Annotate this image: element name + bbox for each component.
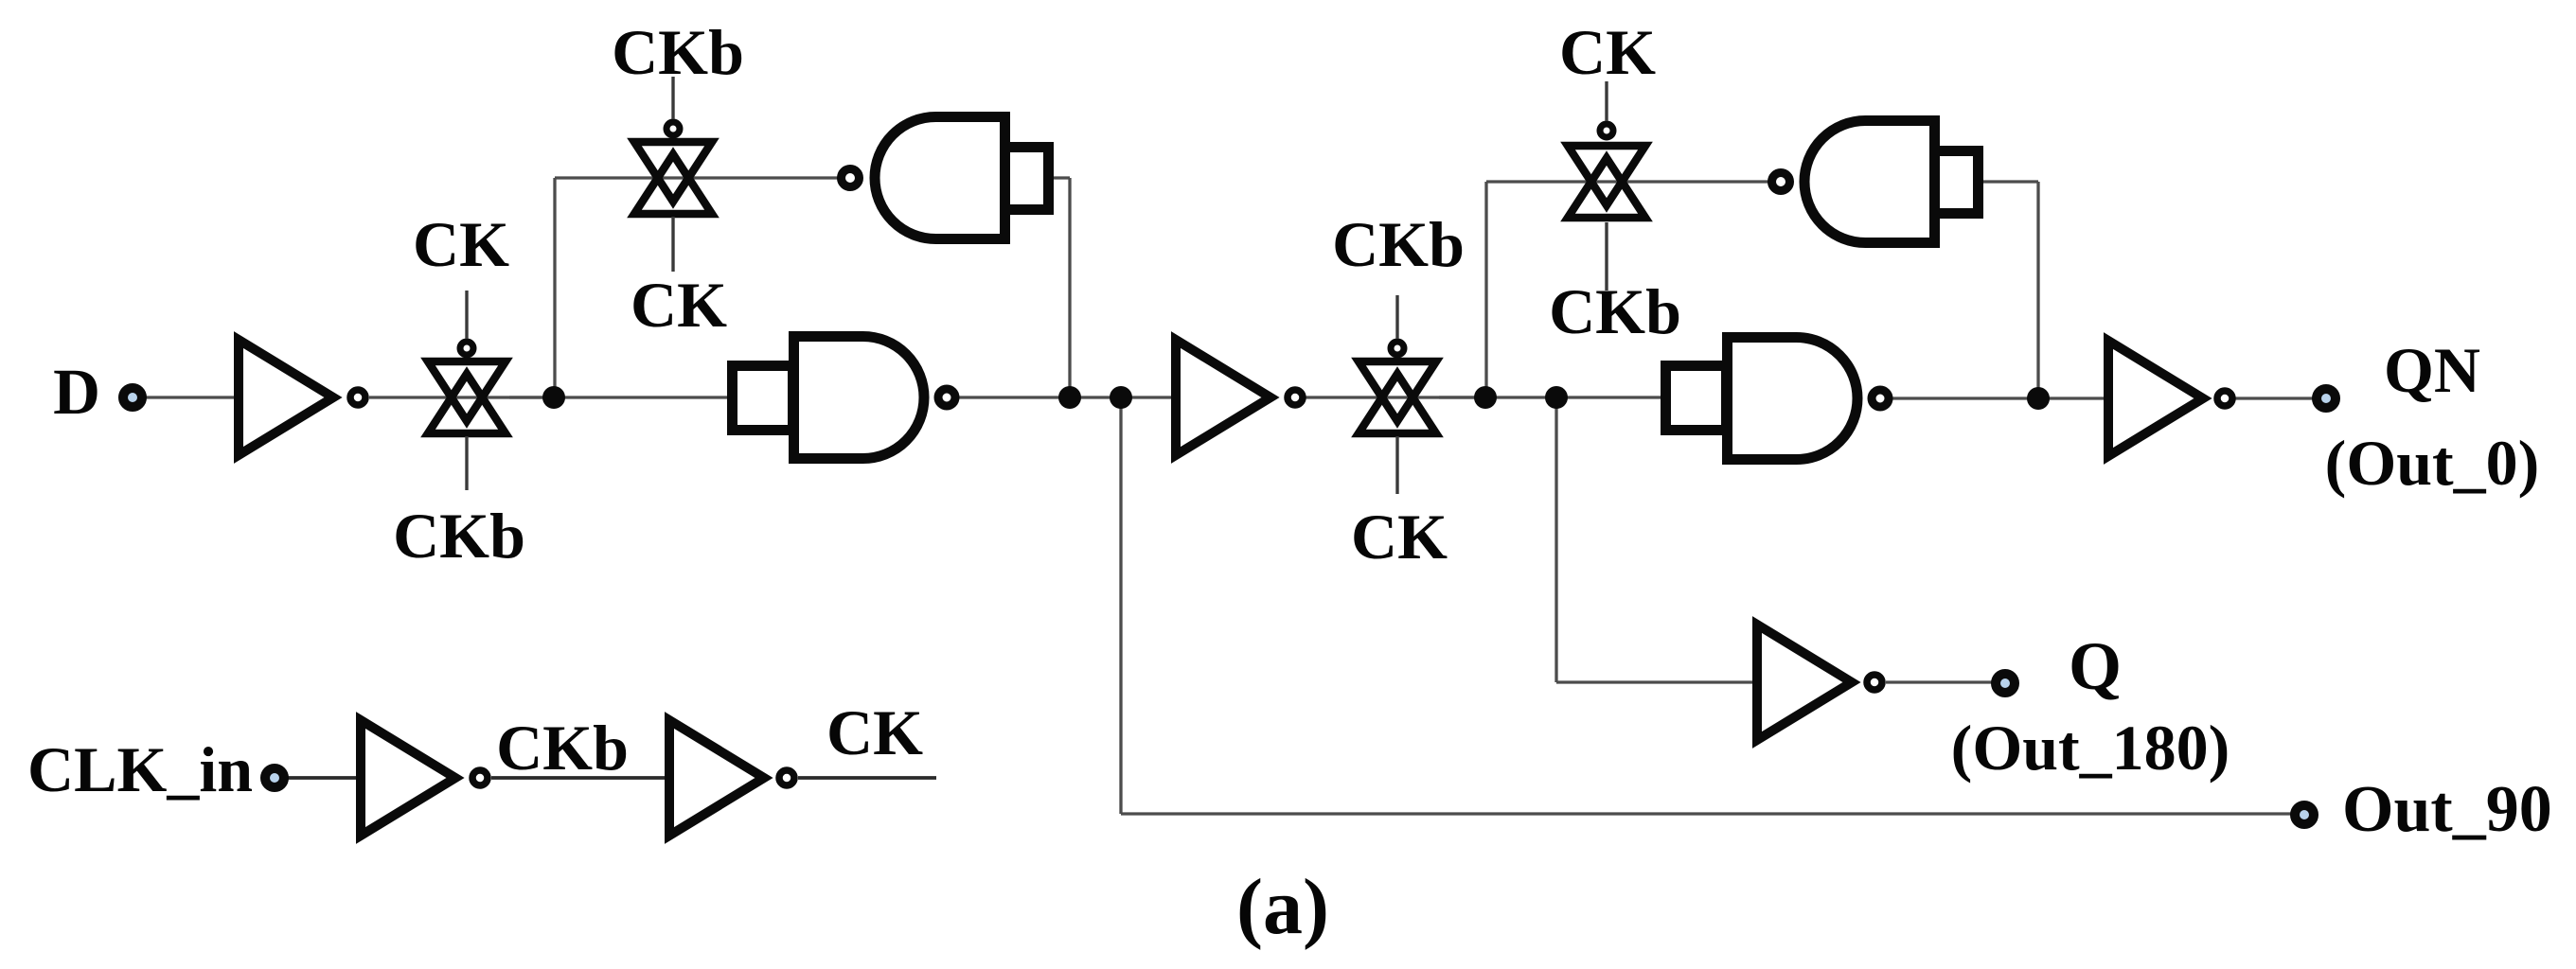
svg-text:CK: CK (1351, 501, 1448, 573)
svg-text:QN: QN (2384, 334, 2480, 406)
svg-text:CK: CK (826, 696, 923, 768)
wire NAND1 output to inverter2 (957, 396, 1176, 398)
wire corner down to node N3 (2036, 182, 2039, 398)
wire D input to inverter (133, 396, 239, 398)
upper NAND2 (latch 2 feedback gate, mirrored) (1772, 121, 1979, 243)
wire node N2 down to Out_90 row (1119, 397, 1122, 814)
inverter U4 (Q output buffer) (1757, 625, 1882, 740)
transmission gate TG4 (feedback, latch 2) (1568, 124, 1645, 218)
wire upper NAND1 tab to corner (1052, 176, 1070, 179)
lower NAND1 (latch 1 forward gate) (733, 337, 956, 459)
svg-text:(Out_180): (Out_180) (1951, 712, 2230, 784)
control stub CK of TG4 (1605, 81, 1608, 121)
node N1 junction (1058, 386, 1081, 409)
wire CKb net between clock inverters (491, 776, 669, 780)
node N2 junction (Out_90 tap) (1110, 386, 1132, 409)
wire Out_90 row to terminal (1121, 812, 2303, 815)
output terminal Q (1996, 674, 2015, 693)
wire TG3 to NAND2 input (1439, 396, 1668, 398)
wire upper NAND2 tab to corner (1983, 180, 2038, 183)
input terminal CLK_in (265, 768, 284, 787)
node C junction (Q tap) (1545, 386, 1568, 409)
inverter U3 (QN output buffer) (2108, 341, 2232, 456)
wire node A to NAND1 input (509, 396, 735, 398)
transmission gate TG3 (1359, 342, 1436, 433)
wire feedback row 2 to TG4 (1486, 180, 1768, 183)
control stub CK of TG1 (465, 291, 468, 339)
transmission gate TG2 (feedback, latch 1) (634, 122, 712, 214)
transmission gate TG1 (428, 342, 506, 433)
svg-text:CKb: CKb (1332, 208, 1465, 280)
lower NAND2 (latch 2 forward gate) (1666, 338, 1890, 460)
wire node A up to feedback row (553, 178, 556, 397)
svg-text:CKb: CKb (1549, 275, 1681, 347)
svg-text:CKb: CKb (496, 712, 629, 784)
wire NAND2 output to inverter3 (1891, 396, 2108, 399)
upper NAND1 (latch 1 feedback gate, mirrored) (842, 117, 1049, 239)
svg-text:D: D (53, 356, 100, 428)
wire node C down to Q row (1554, 397, 1557, 682)
svg-text:CKb: CKb (612, 16, 744, 88)
control stub CKb of TG3 (1395, 295, 1398, 339)
control stub CKb of TG2 (671, 77, 674, 119)
wire feedback row to TG2 (555, 176, 838, 179)
control stub CK of TG3 (1395, 436, 1398, 494)
node N3 junction (2027, 387, 2050, 410)
wire inverter3 output to QN terminal (2235, 396, 2326, 399)
node A junction (542, 386, 565, 409)
inverter U5 (clock buffer 1) (361, 720, 488, 836)
output terminal QN (2317, 389, 2336, 408)
control stub CK of TG2 (671, 217, 674, 272)
svg-text:Out_90: Out_90 (2342, 773, 2552, 846)
wire CLK_in terminal to clock inverter1 (275, 776, 362, 780)
wire inverter2 output to TG3 (1306, 396, 1485, 398)
wire Q inverter output to Q terminal (1886, 680, 2005, 683)
svg-text:CLK_in: CLK_in (27, 733, 253, 805)
inverter U6 (clock buffer 2) (669, 720, 794, 836)
wire node B up to feedback row 2 (1484, 182, 1487, 397)
svg-text:(a): (a) (1236, 863, 1329, 951)
svg-text:(Out_0): (Out_0) (2325, 427, 2540, 499)
input terminal D (123, 388, 142, 407)
inverter U1 (D input buffer) (239, 340, 365, 455)
svg-text:CK: CK (1559, 16, 1656, 88)
wire Q row to Q inverter (1556, 680, 1758, 683)
control stub CKb of TG4 (1605, 222, 1608, 291)
svg-text:CK: CK (631, 269, 727, 341)
node B junction (1474, 386, 1497, 409)
wire CK net stub (798, 776, 936, 780)
svg-text:Q: Q (2069, 628, 2122, 704)
svg-text:CKb: CKb (393, 500, 525, 572)
wire inverter1 output to TG1 (369, 396, 554, 398)
inverter U2 (between latches) (1176, 340, 1303, 455)
wire corner down to node N1 (1068, 178, 1071, 397)
output terminal Out_90 (2295, 805, 2314, 824)
control stub CKb of TG1 (465, 436, 468, 490)
svg-text:CK: CK (413, 208, 509, 280)
